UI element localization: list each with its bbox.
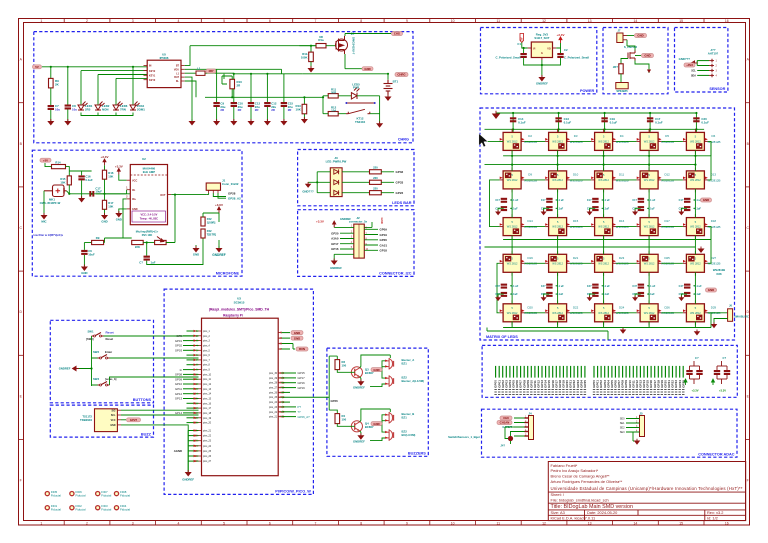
ground U3 (186, 470, 191, 476)
svg-text:pins_21: pins_21 (269, 417, 278, 419)
svg-text:SC0915: SC0915 (234, 301, 245, 305)
wire buzzer junctions (370, 361, 385, 387)
svg-text:0.1 uF: 0.1 uF (648, 199, 656, 202)
net labels GP32 GP33 GP22 (381, 172, 394, 193)
section box BUTTONS (50, 320, 153, 403)
power +3.3V out (559, 37, 562, 43)
LED module D19 WS2812B (503, 254, 521, 272)
wire U4 output (556, 43, 560, 53)
svg-text:GP17: GP17 (331, 242, 339, 246)
svg-text:Conn_01x02: Conn_01x02 (222, 182, 239, 186)
resistor R20 vertical right (201, 217, 205, 226)
section box PICO (164, 289, 313, 494)
capacitor C16 (78, 175, 84, 180)
svg-text:0.1 uF: 0.1 uF (603, 285, 611, 288)
svg-text:D18: D18 (711, 219, 717, 223)
svg-text:GP17: GP17 (298, 376, 306, 380)
svg-text:KL: KL (176, 80, 180, 83)
svg-text:GP13: GP13 (175, 397, 183, 401)
net label GND pico right 2 (291, 336, 303, 340)
svg-text:10u: 10u (55, 107, 60, 111)
wire IN+ network (105, 199, 132, 243)
svg-text:GNDREF: GNDREF (536, 82, 548, 86)
connector J6 SMA output (708, 312, 728, 314)
svg-text:GP01: GP01 (175, 339, 183, 343)
transistor Q3 (351, 367, 362, 378)
svg-text:6: 6 (269, 521, 271, 525)
power label 5V input (33, 65, 42, 69)
wire matrix row 2 data (525, 179, 546, 181)
svg-text:GNDREF: GNDREF (212, 253, 226, 257)
section box MICROFONE (32, 150, 242, 276)
svg-text:7: 7 (315, 19, 317, 23)
wire R11 to LED5 (323, 95, 351, 97)
wire matrix top rail 2 (485, 128, 705, 130)
svg-text:Fiducial: Fiducial (76, 494, 86, 498)
net label sensor supply (684, 63, 695, 67)
svg-text:BUTTONS: BUTTONS (133, 398, 152, 402)
resistor R22 bar (342, 171, 369, 173)
svg-text:104: 104 (331, 108, 336, 112)
wire serpentine row4 to row5 left (497, 263, 500, 313)
net label GND buzzer (371, 368, 382, 372)
capacitor C10 (231, 102, 237, 107)
svg-text:+3V3: +3V3 (686, 63, 693, 67)
svg-text:CMA-4544PF-W: CMA-4544PF-W (40, 201, 61, 205)
svg-text:0.1uF: 0.1uF (694, 293, 701, 296)
svg-text:SDA: SDA (691, 74, 696, 77)
section box BUZZERS (327, 348, 428, 456)
svg-text:0.1uF: 0.1uF (518, 121, 526, 125)
wire LED bar left pins (308, 172, 330, 193)
svg-text:BUZZ: BUZZ (141, 432, 152, 436)
svg-text:D26: D26 (664, 305, 670, 309)
svg-text:F: F (747, 479, 749, 483)
switch SW3 button_b (98, 382, 110, 386)
svg-text:GP28_A2: GP28_A2 (228, 197, 241, 201)
connector J8 speaker bottom (616, 83, 628, 89)
svg-text:D29: D29 (711, 305, 717, 309)
svg-text:pins_22: pins_22 (269, 412, 278, 414)
buzzer module BZ5 (95, 409, 118, 432)
svg-text:8: 8 (360, 521, 362, 525)
svg-text:E: E (20, 394, 23, 398)
svg-text:D23: D23 (619, 256, 625, 260)
svg-text:12: 12 (542, 19, 546, 23)
svg-text:BZ1: BZ1 (402, 362, 408, 366)
wire LED column 4 (132, 67, 134, 105)
svg-text:Fabiano Fruett*: Fabiano Fruett* (551, 463, 578, 468)
LED elements inside bar (334, 169, 339, 174)
ground below bottom rail 2 (621, 328, 626, 333)
resistor R14 horizontal (52, 165, 66, 169)
svg-text:VO: VO (547, 47, 551, 50)
power net label right of L1 (206, 69, 216, 73)
svg-text:GP02: GP02 (175, 344, 183, 348)
svg-text:GND: GND (380, 218, 384, 224)
svg-text:J5: J5 (639, 412, 643, 416)
ground mid caps A (496, 210, 500, 215)
svg-text:1: 1 (40, 521, 42, 525)
svg-text:JR?: JR? (613, 65, 619, 69)
wire R18 right (103, 242, 106, 244)
svg-text:GP11: GP11 (175, 387, 182, 391)
resistor R1b vertical (309, 52, 314, 62)
svg-text:GND: GND (294, 331, 300, 335)
svg-text:WS 2812: WS 2812 (552, 139, 563, 143)
buzzer Buzzer_A (385, 358, 394, 370)
IC U5 IP5306 charger (147, 60, 181, 87)
svg-text:2OM1: 2OM1 (137, 107, 145, 111)
svg-text:pins_17: pins_17 (203, 408, 212, 410)
svg-text:File: bidoglab_smdfinal.kicad_: File: bidoglab_smdfinal.kicad_sch (551, 498, 609, 503)
svg-text:BUZZERS: BUZZERS (408, 452, 426, 456)
svg-text:0.1uF: 0.1uF (694, 207, 701, 210)
svg-text:D24: D24 (619, 305, 625, 309)
svg-text:+3.3V: +3.3V (316, 220, 324, 224)
svg-text:In: In (180, 368, 183, 372)
svg-text:0.1uF: 0.1uF (85, 178, 93, 182)
svg-text:pins_29: pins_29 (269, 378, 278, 380)
wire J7 to GND label (627, 35, 634, 37)
fiducial marks bottom left (45, 490, 130, 512)
wire top rail to transistor area (217, 69, 303, 102)
ground below C10 (233, 107, 235, 121)
resistor R15 vertical (67, 176, 71, 185)
svg-text:WS 2812: WS 2812 (552, 311, 563, 315)
wire buzzer feed vertical (329, 356, 337, 414)
regulator U4 body (531, 42, 552, 58)
ground mid caps B (588, 296, 592, 301)
capacitor C18 bottom (83, 243, 85, 250)
svg-text:pins_12: pins_12 (203, 384, 212, 386)
wire IC right rails (185, 46, 316, 121)
capacitor C32 mid A2 (592, 206, 598, 211)
svg-text:C: C (19, 226, 22, 230)
svg-text:GP16: GP16 (331, 247, 339, 251)
svg-text:0.1uF: 0.1uF (701, 121, 709, 125)
capacitor C9 (213, 102, 219, 107)
svg-text:C?: C? (139, 261, 143, 265)
wire matrix row 5 data (525, 312, 546, 314)
title block text (551, 463, 743, 521)
capacitor C30 mid A2 (501, 206, 507, 211)
wire I2C left pins (334, 227, 354, 249)
svg-text:pins_6: pins_6 (203, 355, 210, 357)
global label 5V input vertical (520, 34, 524, 43)
svg-text:Arturo Rodrigues Fernandes de: Arturo Rodrigues Fernandes de Oliveira** (551, 479, 623, 484)
svg-text:D20: D20 (527, 305, 533, 309)
svg-text:13: 13 (588, 19, 592, 23)
capacitor C17 coupling (89, 191, 94, 197)
svg-text:WS 2812: WS 2812 (507, 178, 518, 182)
svg-text:+3.3V: +3.3V (101, 155, 109, 159)
svg-text:GP27: GP27 (130, 418, 138, 422)
svg-text:GP26: GP26 (380, 238, 388, 242)
svg-text:GP14: GP14 (175, 411, 183, 415)
LED module D5 WS2812B (640, 132, 658, 150)
svg-text:1[00R]: 1[00R] (207, 220, 216, 224)
LED module D16 WS2812B (595, 218, 613, 236)
svg-text:2R: 2R (237, 83, 242, 87)
svg-text:5V: 5V (35, 65, 39, 69)
section box SENSOR (675, 28, 728, 93)
svg-text:GP26: GP26 (331, 399, 339, 403)
svg-text:WS 2812: WS 2812 (690, 178, 701, 182)
svg-text:Reset: Reset (106, 330, 114, 334)
svg-text:R14: R14 (55, 161, 61, 165)
ground mid caps B (633, 296, 637, 301)
net label GND speaker right (635, 55, 641, 57)
svg-text:220: 220 (373, 166, 378, 170)
svg-text:0.1 uF: 0.1 uF (694, 285, 702, 288)
wire charge rail right (302, 74, 388, 80)
svg-text:+3.3V: +3.3V (115, 165, 123, 169)
svg-text:IN: IN (149, 65, 152, 68)
wire serpentine row2 to row3 left (490, 180, 500, 227)
wire base Q4 (337, 424, 354, 427)
wire transistor drain up (345, 34, 391, 37)
svg-text:Fiducial: Fiducial (101, 508, 111, 512)
net label GP27 pink (121, 419, 126, 421)
svg-text:16: 16 (725, 521, 729, 525)
svg-text:GP28: GP28 (228, 192, 236, 196)
svg-text:LEDS BAR: LEDS BAR (392, 201, 412, 205)
svg-text:3: 3 (132, 19, 134, 23)
LED module D14 WS2812B (503, 218, 521, 236)
svg-text:NON: NON (102, 107, 108, 111)
capacitor C43 mid B (638, 284, 644, 289)
svg-text:D25: D25 (664, 256, 670, 260)
svg-text:pins_26: pins_26 (203, 456, 212, 458)
svg-text:pins_30: pins_30 (269, 373, 278, 375)
connector J9 pins (697, 59, 717, 78)
wire transistor source down to GND label (345, 54, 362, 69)
svg-text:0.1uF: 0.1uF (557, 207, 564, 210)
svg-text:DMG3415U-7: DMG3415U-7 (352, 37, 356, 55)
U4 pins (528, 47, 532, 49)
resistor R18 bottom left (84, 242, 91, 244)
svg-text:C1: C1 (517, 42, 521, 46)
capacitor C20 mid A (501, 198, 507, 203)
LED module D20 WS2812B (503, 304, 521, 322)
svg-text:0.1 uF: 0.1 uF (557, 199, 565, 202)
U3 right pins top (278, 333, 290, 351)
svg-text:Pedro Ivo Araujo Salvadori*: Pedro Ivo Araujo Salvadori* (551, 468, 599, 473)
svg-text:0.1 uF: 0.1 uF (511, 199, 519, 202)
svg-text:[SW4]: [SW4] (86, 337, 93, 341)
svg-text:pins_28: pins_28 (269, 383, 278, 385)
inductor L1 (196, 71, 205, 75)
svg-text:GNDREF: GNDREF (182, 477, 194, 481)
svg-text:D3: D3 (574, 134, 578, 138)
svg-text:IN+: IN+ (132, 198, 137, 201)
svg-text:9: 9 (406, 19, 408, 23)
svg-text:WS 2812: WS 2812 (552, 225, 563, 229)
ground mid caps A (542, 210, 546, 215)
section box PIN HEADERS (482, 345, 737, 397)
svg-text:+3.6V: +3.6V (215, 203, 223, 207)
LED module D13 WS2812B (686, 171, 704, 189)
capacitor C50 mid B2 (501, 292, 507, 297)
LED module D3 WS2812B (549, 132, 567, 150)
LED module D4 WS2812B (595, 132, 613, 150)
svg-text:2: 2 (86, 19, 88, 23)
svg-text:C4?: C4? (679, 285, 684, 288)
trimmer RV1 (143, 242, 154, 244)
svg-text:pins_9: pins_9 (203, 370, 210, 372)
svg-text:3: 3 (132, 521, 134, 525)
wire power gnd rail (524, 58, 561, 77)
svg-text:13: 13 (588, 521, 592, 525)
svg-text:14: 14 (634, 521, 638, 525)
svg-text:SW2: SW2 (93, 350, 100, 354)
svg-text:WS 2812: WS 2812 (598, 225, 609, 229)
wire matrix row 1 data (486, 140, 503, 142)
svg-text:GP26_A?: GP26_A? (298, 415, 311, 419)
svg-text:10K: 10K (108, 204, 113, 208)
svg-text:+5V: +5V (43, 158, 48, 162)
svg-text:GP09: GP09 (175, 377, 183, 381)
net label GND matrix right B (706, 288, 717, 292)
svg-text:S1117_SOT: S1117_SOT (534, 36, 549, 40)
svg-text:C1?: C1? (495, 199, 500, 202)
svg-text:WS 2812: WS 2812 (690, 261, 701, 265)
svg-text:100: 100 (342, 364, 347, 368)
svg-text:BC(L3.5M): BC(L3.5M) (402, 433, 416, 437)
section box POWER (481, 28, 597, 94)
svg-text:0.1uF: 0.1uF (610, 121, 618, 125)
ground LED bar (306, 182, 311, 187)
svg-text:C1?: C1? (632, 199, 637, 202)
wire SW1 to pico (104, 335, 199, 337)
LED module D12 WS2812B (640, 171, 658, 189)
svg-text:1: 1 (126, 187, 128, 190)
wire Q5 source right (635, 61, 649, 74)
svg-text:WS 2812: WS 2812 (644, 261, 655, 265)
svg-text:D15: D15 (573, 219, 579, 223)
svg-text:ELE AMP: ELE AMP (143, 170, 155, 174)
svg-text:16: 16 (725, 19, 729, 23)
svg-text:2K: 2K (55, 83, 60, 87)
svg-text:CONNECTOR_I2C: CONNECTOR_I2C (379, 272, 412, 276)
svg-text:C?: C? (723, 356, 727, 360)
svg-text:pins_15: pins_15 (203, 399, 212, 401)
capacitor C11 (248, 102, 254, 107)
ground right network (195, 245, 197, 248)
svg-text:WS 2812: WS 2812 (690, 225, 701, 229)
svg-text:pins_20: pins_20 (203, 423, 212, 425)
wire J1 up (206, 193, 208, 195)
svg-text:C1?: C1? (587, 199, 592, 202)
svg-text:C4?: C4? (495, 285, 500, 288)
svg-text:9: 9 (406, 521, 408, 525)
svg-text:+3.3V: +3.3V (557, 33, 565, 37)
svg-text:10: 10 (451, 521, 455, 525)
svg-text:SE2: SE2 (620, 427, 625, 430)
junction R1b gate (310, 45, 312, 47)
LED module D6 WS2812B (686, 132, 704, 150)
svg-text:WS 2812: WS 2812 (507, 311, 518, 315)
svg-text:Date: 2024-05-20: Date: 2024-05-20 (587, 510, 618, 515)
U3 right pins middle (269, 371, 310, 419)
svg-text:10uF: 10uF (88, 252, 95, 256)
ground below C7 (50, 110, 52, 121)
svg-text:pins_23: pins_23 (203, 441, 212, 443)
svg-text:Id: 1/2: Id: 1/2 (707, 516, 718, 521)
svg-text:Fiducial: Fiducial (51, 494, 61, 498)
capacitor C12 (264, 102, 270, 107)
svg-text:1uF: 1uF (151, 261, 156, 265)
svg-text:SE1: SE1 (620, 422, 625, 425)
svg-text:GNDREF: GNDREF (59, 367, 71, 371)
svg-text:D10: D10 (573, 173, 579, 177)
ground mid caps B (542, 296, 546, 301)
svg-text:220: 220 (373, 186, 378, 190)
svg-text:22K: 22K (135, 245, 140, 249)
svg-text:J4: J4 (528, 412, 532, 416)
svg-text:GND: GND (373, 368, 379, 372)
svg-text:GP22: GP22 (396, 191, 404, 195)
svg-text:220: 220 (373, 176, 378, 180)
svg-text:C1?: C1? (679, 199, 684, 202)
svg-text:WS 2812: WS 2812 (598, 139, 609, 143)
capacitor C8 polarized (65, 105, 71, 110)
wire matrix row 4 data (525, 262, 546, 264)
ground right below row3 rails (699, 247, 704, 253)
wire LED column 2 (98, 75, 147, 105)
svg-text:CONNECTOR ADAC: CONNECTOR ADAC (698, 452, 735, 456)
section box CONNECTOR_I2C (298, 210, 414, 277)
net label CHG pink upper (392, 32, 403, 36)
svg-text:pins_11: pins_11 (203, 379, 212, 381)
svg-text:KEY1: KEY1 (149, 74, 156, 77)
svg-text:GNDREF: GNDREF (353, 439, 365, 443)
svg-text:WS2812B: WS2812B (713, 268, 725, 272)
resistor R1a horizontal (316, 44, 326, 48)
svg-text:J6: J6 (729, 304, 732, 308)
ground below C16 (81, 180, 83, 198)
ground emitter Q3 (360, 377, 361, 382)
capacitor C19 feedback (146, 243, 148, 256)
ground below C8 (67, 110, 69, 122)
ground below C9 (216, 107, 218, 121)
svg-text:GND: GND (81, 271, 87, 275)
svg-text:5V: 5V (521, 37, 524, 40)
svg-text:D5: D5 (665, 134, 669, 138)
ground sensor (691, 61, 697, 65)
net label CH1AN (497, 421, 512, 425)
ground below R13 (303, 114, 305, 119)
svg-text:BT: BT (176, 65, 180, 68)
capacitor C19 top (604, 113, 606, 132)
wire matrix top rail 1 (496, 112, 695, 114)
svg-text:0.1uF: 0.1uF (511, 293, 518, 296)
svg-text:C4?: C4? (587, 285, 592, 288)
svg-text:C2: C2 (564, 48, 568, 52)
resistor R17 vertical (102, 200, 106, 209)
microphone MK1 (44, 185, 67, 197)
svg-text:G: G (541, 52, 543, 55)
svg-text:WS 2812: WS 2812 (507, 139, 518, 143)
connector J1 mic out (206, 183, 220, 190)
svg-text:0.1 uF: 0.1 uF (603, 199, 611, 202)
svg-text:POWER: POWER (580, 89, 595, 93)
svg-text:2: 2 (716, 65, 718, 68)
LED LED3 (113, 102, 123, 111)
section box LEDS BAR (298, 150, 414, 206)
wire R25 down (620, 74, 622, 83)
